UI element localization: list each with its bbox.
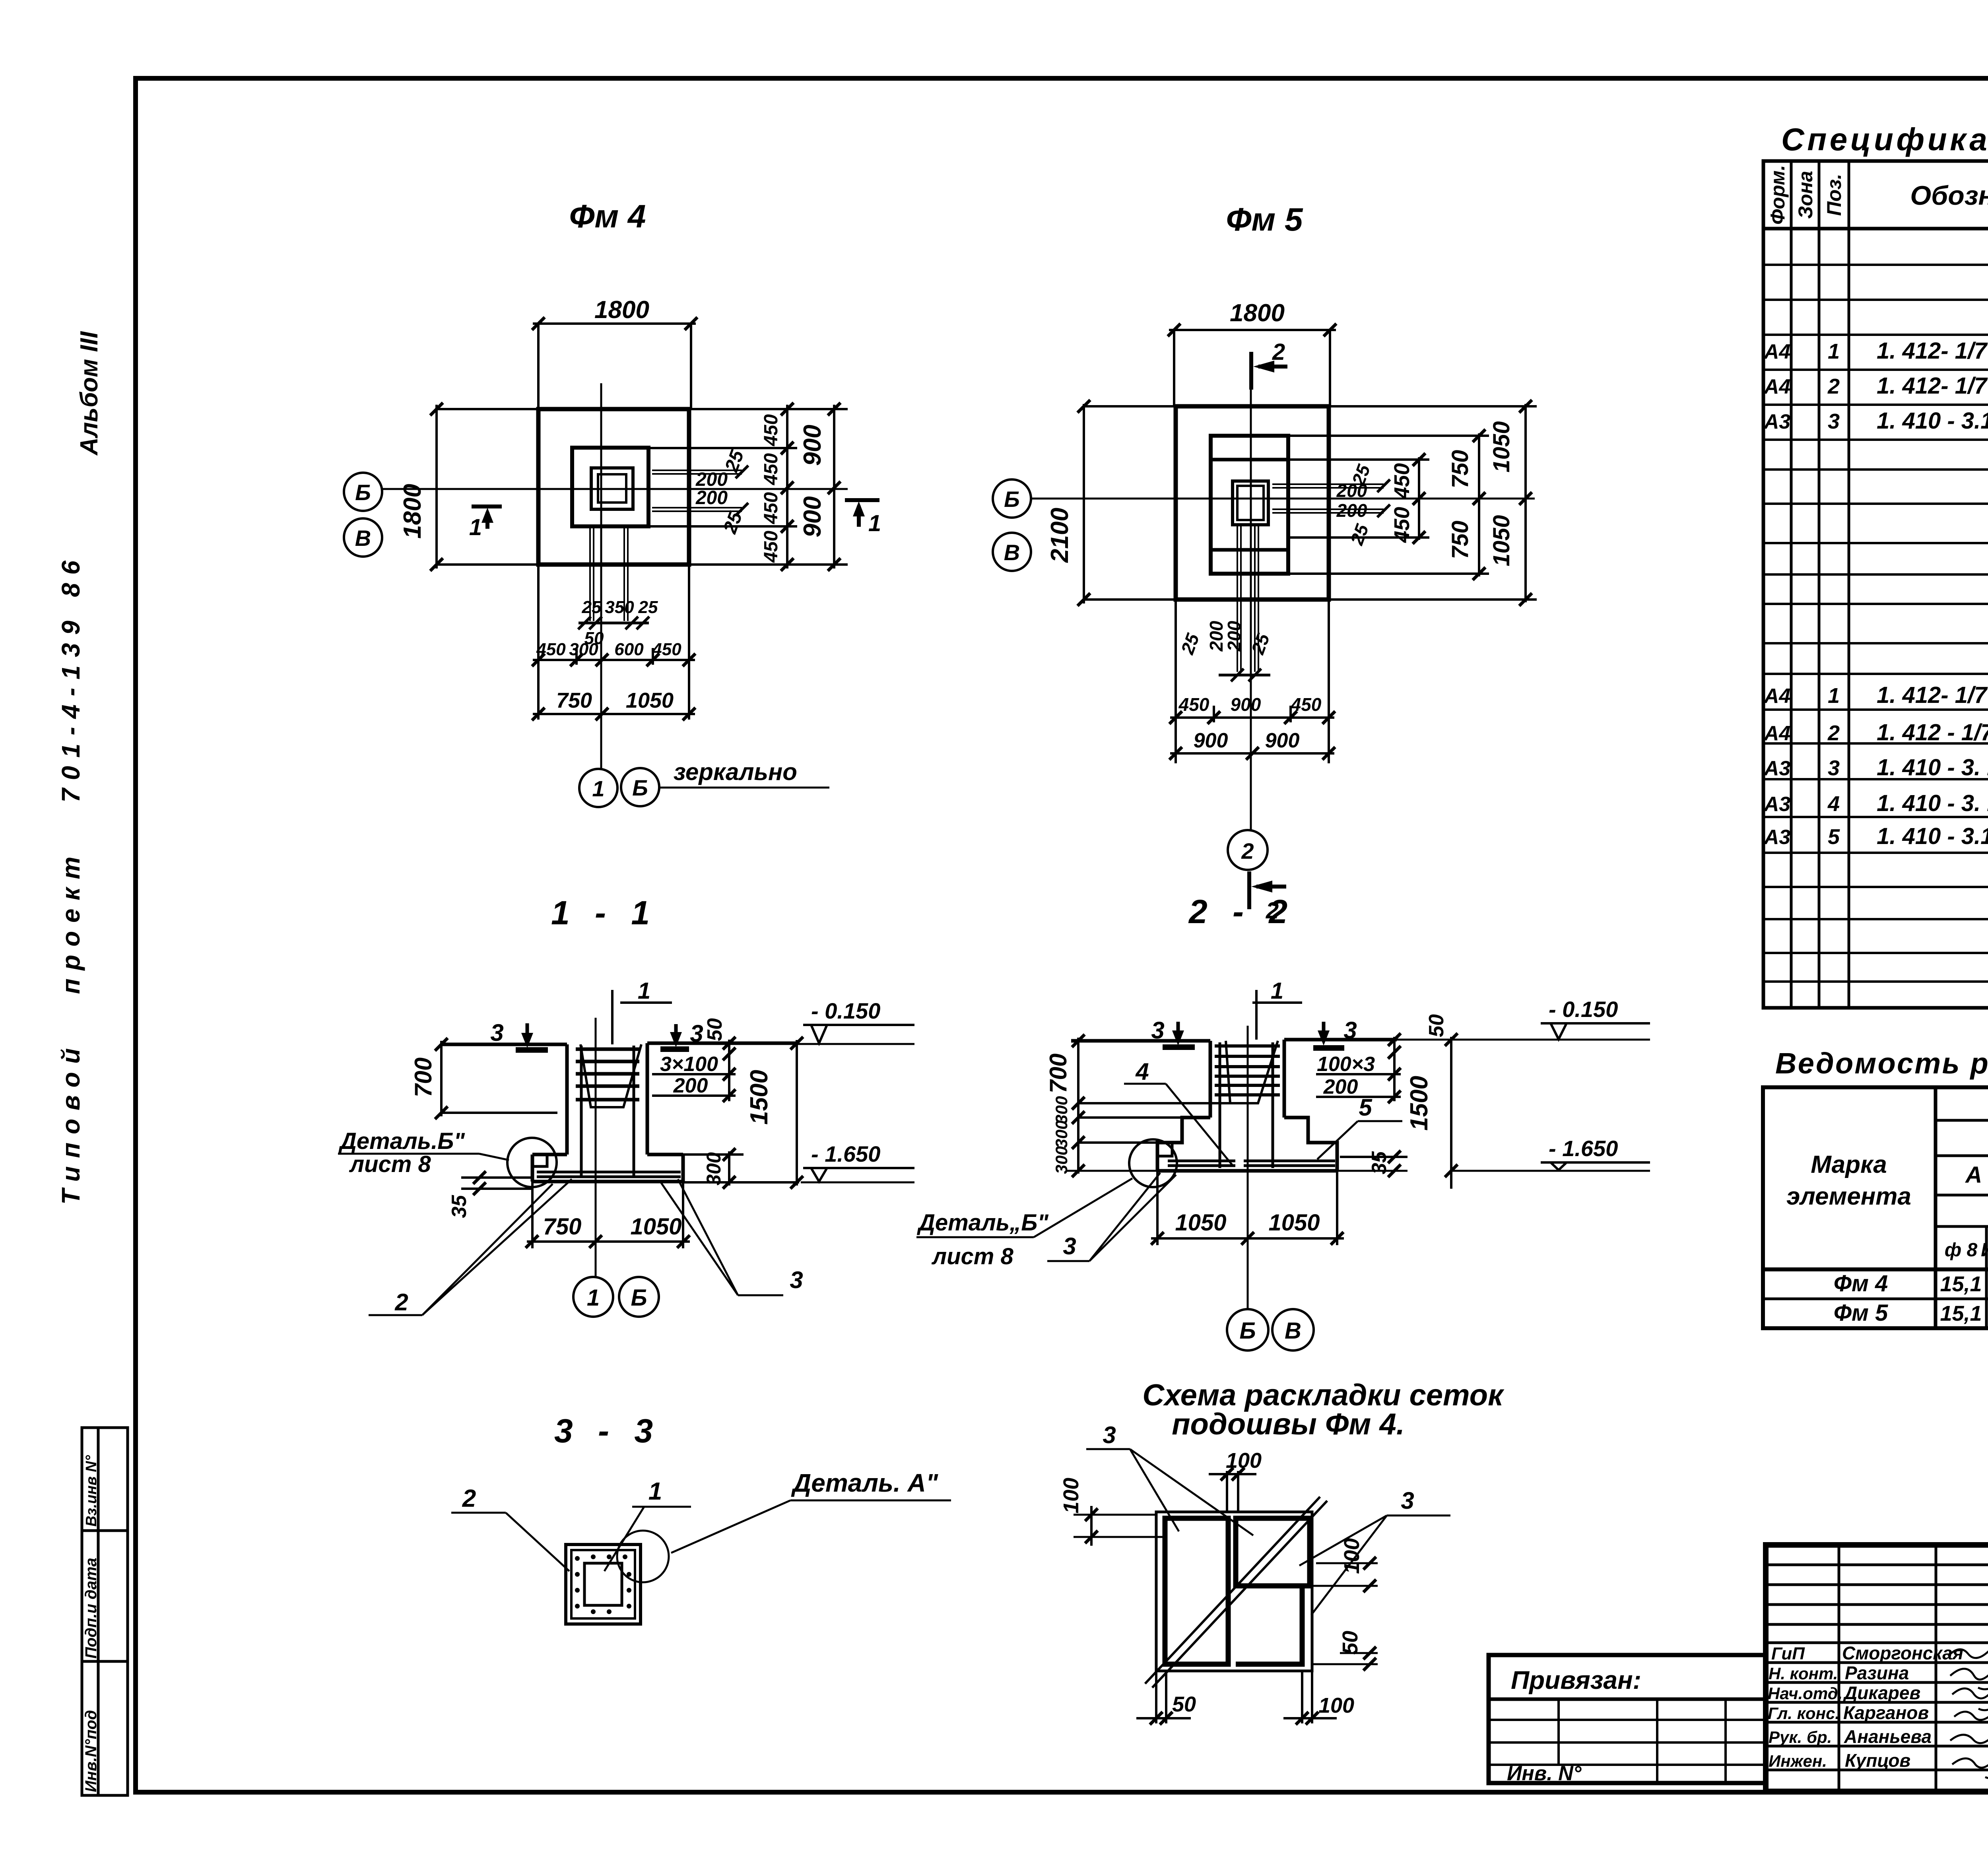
steel row header bottom [1763, 1267, 1988, 1271]
plan Фм5 step band top [1211, 458, 1288, 462]
scheme dim 50 bottom [1155, 1671, 1157, 1723]
plan Фм5 middle step [1211, 436, 1288, 574]
s22 left dim 700+300x3 [1077, 1038, 1079, 1174]
s11 bottom mesh [537, 1172, 681, 1177]
s11 circle Б [619, 1277, 659, 1317]
svg-text:элемента: элемента [1786, 1183, 1911, 1210]
svg-text:1050: 1050 [1268, 1210, 1320, 1236]
svg-text:Фм 4: Фм 4 [1834, 1271, 1888, 1296]
svg-text:450: 450 [652, 640, 681, 659]
svg-text:2 - 2: 2 - 2 [1188, 893, 1295, 930]
svg-text:1500: 1500 [745, 1070, 773, 1125]
Фм5 right dim 750 750 [1478, 433, 1480, 576]
plan Фм5 step band bottom [1211, 548, 1288, 552]
s11 detail circle [507, 1138, 557, 1187]
svg-text:700: 700 [1045, 1054, 1072, 1093]
plan Фм5 column inner [1237, 486, 1264, 520]
steel row Изделия bottom [1936, 1119, 1988, 1122]
svg-text:5: 5 [1359, 1094, 1373, 1121]
signatures squiggles [1948, 1649, 1988, 1778]
svg-text:Сморгонская: Сморгонская [1842, 1643, 1963, 1663]
s22 circle В [1272, 1309, 1314, 1351]
axis circle Б left [344, 473, 382, 511]
Фм5 axis circle В [993, 533, 1031, 571]
svg-text:200: 200 [1336, 480, 1367, 501]
svg-text:450: 450 [761, 531, 782, 563]
svg-text:35: 35 [448, 1195, 471, 1218]
svg-text:Поз.: Поз. [1823, 174, 1845, 216]
svg-text:300: 300 [1052, 1146, 1071, 1174]
axis circle В left [344, 518, 382, 557]
svg-text:3: 3 [1103, 1422, 1116, 1448]
svg-text:3: 3 [790, 1267, 803, 1293]
svg-text:100: 100 [1226, 1449, 1262, 1473]
s22 pedestal left edge [1209, 1041, 1212, 1118]
Фм5 rebar pair right top [1272, 483, 1384, 485]
scheme mesh left [1165, 1518, 1228, 1664]
svg-text:900: 900 [1231, 694, 1261, 715]
svg-text:4: 4 [1135, 1058, 1149, 1085]
dim 1800 left: line [435, 405, 438, 569]
svg-text:1: 1 [592, 776, 604, 801]
svg-text:25: 25 [638, 598, 658, 617]
svg-text:Деталь. А": Деталь. А" [791, 1469, 938, 1497]
steel row data divider [1763, 1298, 1988, 1300]
svg-text:В: В [1004, 540, 1020, 565]
svg-text:Б: Б [1239, 1318, 1256, 1344]
svg-text:1. 410 - 3.1 - 02: 1. 410 - 3.1 - 02 [1877, 823, 1988, 849]
svg-text:Б: Б [631, 1285, 647, 1311]
plan Фм4 footing outline [538, 409, 689, 565]
plan Фм4 column inner [598, 474, 626, 503]
Фм5 dim 1800 top line [1169, 329, 1336, 331]
d33 middle square [571, 1550, 635, 1618]
svg-text:Гл. конс.: Гл. конс. [1768, 1704, 1840, 1723]
svg-text:3: 3 [1343, 1017, 1357, 1044]
svg-text:ф 8: ф 8 [1945, 1240, 1978, 1261]
s22 horizontal bars [1215, 1046, 1280, 1095]
svg-text:Привязан:: Привязан: [1511, 1666, 1641, 1694]
svg-text:750: 750 [1447, 521, 1473, 559]
svg-text:100: 100 [1059, 1478, 1083, 1513]
d33 outer square [566, 1545, 641, 1624]
svg-text:Б: Б [632, 775, 648, 800]
svg-text:200: 200 [673, 1074, 708, 1097]
small rebar dim ticks right [736, 466, 748, 516]
plan Фм4 middle step [572, 448, 648, 526]
margin stamp divider row 1 [82, 1529, 128, 1532]
s11 bottom dim 750 1050 [527, 1240, 690, 1243]
svg-text:- 0.150: - 0.150 [811, 998, 880, 1023]
svg-text:300: 300 [703, 1152, 725, 1186]
svg-text:450: 450 [761, 492, 782, 524]
s22 left step profile [1157, 1118, 1210, 1171]
svg-text:Дикарев: Дикарев [1842, 1682, 1920, 1703]
s22 dim 50 100x3 200 right [1393, 1037, 1396, 1101]
svg-text:5: 5 [1828, 825, 1840, 849]
s11 dim 700 [440, 1041, 443, 1116]
svg-text:3×100: 3×100 [660, 1053, 718, 1076]
s22 slab bottom [1157, 1169, 1337, 1173]
title block signature rows [1766, 1661, 1988, 1664]
d33 inner square [584, 1563, 622, 1605]
svg-text:700: 700 [410, 1058, 437, 1097]
s22 top surface right [1284, 1038, 1397, 1042]
svg-text:750: 750 [543, 1214, 582, 1240]
svg-text:50: 50 [703, 1018, 726, 1041]
steel subcol lines [1985, 1226, 1988, 1328]
scheme dim 100 left [1074, 1514, 1156, 1516]
scheme outer square [1156, 1512, 1312, 1671]
d33 callout circle [617, 1531, 669, 1582]
s22 axis [1247, 1026, 1249, 1309]
svg-text:Ведомость расхода стали на: Ведомость расхода стали на элемент, кг [1775, 1047, 1988, 1080]
svg-text:А3: А3 [1763, 793, 1791, 816]
scheme dim 100 right [1316, 1562, 1378, 1564]
right extension lines [689, 408, 848, 410]
svg-text:Б: Б [1004, 487, 1020, 512]
s11 step top left [532, 1153, 567, 1156]
plan Фм4 horizontal axis Б [382, 488, 848, 490]
svg-text:4: 4 [1827, 792, 1840, 816]
привязан rows [1489, 1719, 1766, 1721]
Фм5 small rebar ticks right [1377, 479, 1390, 517]
right dim line 900x2 [833, 405, 835, 569]
s11 dim 50 and 3x100 200 right [728, 1040, 730, 1101]
scheme dim 100 bottom [1301, 1671, 1303, 1723]
bottom axis circle 1 [579, 769, 617, 807]
svg-text:900: 900 [799, 425, 826, 466]
s11 mesh callout 1 [612, 990, 672, 1044]
s11 step top right [647, 1153, 683, 1156]
Фм5 bottom dim 450 900 450 [1170, 716, 1334, 719]
svg-text:25: 25 [582, 598, 602, 617]
svg-text:1. 412- 1/77- В. 3 - 020: 1. 412- 1/77- В. 3 - 020 [1877, 338, 1988, 364]
svg-text:1. 410 - 3. 1 - 01: 1. 410 - 3. 1 - 01 [1877, 755, 1988, 780]
svg-text:2: 2 [1827, 374, 1840, 398]
svg-text:1: 1 [1271, 978, 1283, 1004]
s22 pedestal right edge [1283, 1040, 1286, 1118]
svg-text:Карганов: Карганов [1843, 1702, 1929, 1723]
svg-text:А4: А4 [1763, 375, 1791, 398]
scheme diagonal break line [1145, 1497, 1320, 1684]
Фм5 right dim 450 450 [1418, 457, 1420, 540]
svg-text:450: 450 [1390, 463, 1414, 499]
section mark 1 right [845, 500, 879, 527]
spec table grid [1763, 161, 1988, 1008]
Фм5 small dim line bottom [1219, 674, 1270, 677]
svg-text:200: 200 [1224, 621, 1244, 652]
Фм5 rebar pair right bottom [1272, 508, 1384, 510]
svg-text:450: 450 [761, 414, 782, 446]
svg-text:3: 3 [690, 1020, 703, 1047]
svg-text:Б: Б [355, 480, 371, 505]
svg-text:300: 300 [569, 640, 598, 659]
steel col Марка [1934, 1087, 1938, 1328]
dim 1800 top: line [533, 322, 696, 325]
svg-text:В: В [355, 526, 371, 551]
svg-text:3: 3 [1828, 756, 1840, 780]
s22 notch [1157, 1143, 1172, 1156]
svg-text:А - I: А - I [1965, 1162, 1988, 1188]
Фм5 right extension lines [1329, 405, 1537, 407]
svg-text:15,1: 15,1 [1940, 1272, 1982, 1296]
svg-text:А3: А3 [1763, 757, 1791, 780]
svg-text:Фм 5: Фм 5 [1226, 202, 1303, 238]
svg-text:Инжен.: Инжен. [1769, 1752, 1827, 1770]
svg-text:1: 1 [638, 978, 650, 1004]
svg-text:450: 450 [761, 453, 782, 485]
svg-text:3: 3 [1063, 1233, 1076, 1259]
margin stamp block [82, 1428, 128, 1795]
rebar pair right top [652, 470, 742, 471]
s11 vertical bars [580, 1046, 583, 1176]
steel row classes bottom [1936, 1194, 1988, 1197]
svg-text:300: 300 [1052, 1120, 1071, 1148]
svg-text:3 - 3: 3 - 3 [554, 1412, 661, 1449]
svg-text:Деталь„Б": Деталь„Б" [916, 1210, 1049, 1236]
svg-text:ГиП: ГиП [1771, 1644, 1805, 1663]
plan Фм4 vertical axis [600, 383, 602, 769]
svg-text:- 0.150: - 0.150 [1549, 997, 1618, 1022]
s22 dim 1500 [1450, 1037, 1452, 1189]
svg-text:1800: 1800 [1230, 299, 1285, 327]
s11 dim 1500 [796, 1040, 798, 1186]
s11 pedestal right edge [646, 1043, 649, 1155]
svg-text:2: 2 [1827, 721, 1840, 745]
svg-text:Фм 4: Фм 4 [569, 198, 646, 235]
s22 top surface left [1071, 1039, 1210, 1043]
svg-text:1050: 1050 [630, 1214, 681, 1240]
svg-text:Форм.: Форм. [1767, 165, 1789, 225]
svg-text:1800: 1800 [399, 484, 426, 539]
plan Фм4 column outer [591, 468, 633, 509]
title block col 2 [1935, 1545, 1938, 1791]
s22 dim 35 [1340, 1156, 1408, 1158]
svg-text:450: 450 [1291, 694, 1322, 715]
svg-text:1: 1 [648, 1478, 662, 1505]
Фм5 section mark 2 bottom [1249, 871, 1286, 909]
svg-text:3: 3 [1828, 409, 1840, 433]
svg-text:2: 2 [394, 1289, 408, 1316]
title block thin rows [1766, 1564, 1988, 1566]
s22 recess trapezoid [1226, 1041, 1278, 1103]
Фм5 right dim 1050 1050 [1524, 404, 1527, 602]
svg-text:1. 410 - 3. 1 - 01: 1. 410 - 3. 1 - 01 [1877, 790, 1988, 816]
svg-text:1: 1 [587, 1285, 600, 1311]
svg-text:- 1.650: - 1.650 [1549, 1136, 1618, 1161]
steel row Арматура bottom [1936, 1155, 1988, 1157]
svg-text:2: 2 [1241, 838, 1254, 863]
svg-text:лист 8: лист 8 [349, 1151, 431, 1177]
s11 dim 300 [728, 1151, 730, 1186]
svg-text:лист 8: лист 8 [931, 1244, 1013, 1269]
svg-text:1050: 1050 [1175, 1210, 1226, 1236]
bottom axis circle Б [621, 768, 659, 806]
svg-text:Деталь.Б": Деталь.Б" [338, 1128, 465, 1154]
Фм5 bottom axis circle 2 [1228, 830, 1268, 870]
svg-text:А4: А4 [1763, 685, 1791, 708]
svg-text:Инв. N°: Инв. N° [1507, 1762, 1582, 1785]
svg-text:1 - 1: 1 - 1 [551, 894, 658, 931]
section mark 1 left [472, 506, 502, 529]
svg-text:750: 750 [1447, 450, 1473, 489]
rebar pair right bottom [652, 507, 742, 508]
svg-text:2: 2 [462, 1485, 476, 1512]
svg-text:450: 450 [1178, 694, 1209, 715]
svg-text:450: 450 [1390, 507, 1414, 543]
svg-text:Итого: Итого [1981, 1240, 1988, 1261]
svg-text:1. 412- 1/77- В. 3 - 020: 1. 412- 1/77- В. 3 - 020 [1877, 682, 1988, 708]
svg-text:Альбом III: Альбом III [76, 331, 103, 456]
plan Фм5 column outer [1233, 481, 1268, 525]
svg-text:100×3: 100×3 [1317, 1053, 1375, 1076]
svg-text:Купцов: Купцов [1845, 1750, 1910, 1771]
svg-text:100: 100 [1318, 1694, 1354, 1717]
rebar pair down right [623, 526, 625, 621]
Фм5 axis circle Б [993, 479, 1031, 518]
margin stamp divider vertical [97, 1428, 100, 1795]
svg-text:1: 1 [1828, 684, 1840, 708]
svg-text:50: 50 [1172, 1692, 1196, 1716]
d33 rebar dots [575, 1554, 631, 1614]
Фм5 bottom dim 900 900 [1170, 752, 1334, 755]
svg-text:50: 50 [1425, 1014, 1448, 1037]
s11 dim 35 [461, 1176, 533, 1179]
svg-text:Ананьева: Ананьева [1844, 1726, 1932, 1747]
s22 right step profile [1284, 1118, 1337, 1171]
svg-text:900: 900 [1265, 729, 1300, 752]
зеркально underline [660, 787, 829, 789]
scheme dim 100 top [1226, 1471, 1228, 1512]
bottom dim line 750 1050 [533, 713, 695, 715]
svg-text:200: 200 [1336, 500, 1367, 521]
right dim line 450x4 [786, 405, 788, 569]
svg-text:А3: А3 [1763, 826, 1791, 849]
svg-text:1: 1 [469, 514, 482, 540]
svg-text:35: 35 [1368, 1151, 1391, 1174]
Фм5 rebar pair down 1 [1237, 525, 1238, 672]
svg-text:Инв.N°под: Инв.N°под [82, 1710, 100, 1792]
svg-text:200: 200 [695, 487, 728, 508]
s11 pedestal left edge [565, 1044, 569, 1155]
s11 notch [532, 1155, 547, 1166]
привязан cols [1557, 1699, 1560, 1765]
Фм5 dim 2100 left line [1083, 404, 1085, 603]
steel table outer [1763, 1087, 1988, 1328]
svg-text:2: 2 [1272, 339, 1285, 365]
s11 axis [595, 1018, 597, 1277]
s22 circle Б [1227, 1309, 1268, 1351]
svg-text:3: 3 [490, 1019, 503, 1046]
s11 top surface left [441, 1043, 567, 1046]
scheme mesh top right [1236, 1518, 1310, 1586]
svg-text:1050: 1050 [1489, 421, 1514, 472]
svg-text:450: 450 [536, 640, 566, 659]
margin stamp divider row 2 [82, 1660, 128, 1663]
svg-text:2100: 2100 [1046, 508, 1074, 563]
svg-text:А3: А3 [1763, 410, 1791, 433]
svg-text:900: 900 [799, 496, 826, 537]
svg-text:подошвы Фм 4.: подошвы Фм 4. [1172, 1407, 1405, 1441]
s22 bottom dim 1050 1050 [1151, 1237, 1344, 1240]
svg-text:Обозначение: Обозначение [1910, 180, 1988, 211]
svg-text:50: 50 [1338, 1631, 1362, 1655]
svg-text:15,1: 15,1 [1940, 1302, 1982, 1325]
svg-text:1. 412 - 1/77- В. 3 - 100: 1. 412 - 1/77- В. 3 - 100 [1877, 720, 1988, 745]
svg-text:1. 412- 1/77- В. 3 - 100: 1. 412- 1/77- В. 3 - 100 [1877, 373, 1988, 399]
svg-text:100: 100 [1340, 1538, 1364, 1574]
svg-text:А4: А4 [1763, 340, 1791, 363]
svg-text:Зона: Зона [1794, 171, 1817, 219]
bottom dim line 450 300 600 450 [533, 659, 695, 661]
svg-text:1800: 1800 [594, 296, 649, 324]
svg-text:Рук. бр.: Рук. бр. [1769, 1728, 1832, 1746]
s22 detail circle [1129, 1139, 1177, 1187]
title block outer [1766, 1545, 1988, 1791]
svg-text:900: 900 [1194, 729, 1228, 752]
svg-text:Нач.отд.: Нач.отд. [1768, 1684, 1842, 1703]
svg-text:350: 350 [605, 598, 634, 617]
s11 circle 1 [573, 1277, 613, 1317]
svg-text:Спецификация элементов ф: Спецификация элементов фундаментов [1781, 122, 1988, 157]
svg-text:зеркально: зеркально [674, 759, 797, 785]
rebar pair down left [589, 526, 591, 621]
scheme mesh bottom right [1236, 1586, 1302, 1664]
svg-text:3: 3 [1151, 1017, 1164, 1044]
svg-text:1050: 1050 [1489, 515, 1514, 566]
s11 slab right edge [681, 1155, 685, 1182]
s11 slab bottom [532, 1180, 683, 1184]
plan Фм5 horizontal axis [1031, 498, 1535, 500]
svg-text:А4: А4 [1763, 722, 1791, 745]
svg-text:200: 200 [1323, 1075, 1358, 1098]
svg-text:1: 1 [868, 510, 881, 536]
s22 mesh callout 1 [1252, 990, 1302, 1040]
plan Фм5 footing outline [1176, 406, 1329, 600]
s22 vertical bars [1219, 1042, 1221, 1168]
scheme dim 50 right [1340, 1652, 1378, 1654]
svg-text:1500: 1500 [1406, 1076, 1433, 1131]
svg-text:750: 750 [556, 689, 592, 712]
small dim line 25 350 25 [579, 622, 649, 625]
s22 bottom mesh [1168, 1161, 1335, 1166]
svg-text:1050: 1050 [626, 689, 674, 712]
svg-text:600: 600 [614, 640, 644, 659]
svg-text:Н. конт.: Н. конт. [1769, 1664, 1838, 1683]
svg-text:- 1.650: - 1.650 [811, 1141, 880, 1166]
title block col 1 [1838, 1545, 1840, 1791]
svg-text:Подп.и дата: Подп.и дата [82, 1558, 100, 1659]
svg-text:Марка: Марка [1811, 1151, 1887, 1178]
svg-text:1: 1 [1828, 340, 1840, 363]
steel row ГОСТ bottom [1936, 1225, 1988, 1228]
привязан row 1 [1489, 1698, 1766, 1701]
svg-text:3: 3 [1401, 1487, 1414, 1514]
привязан block outer [1489, 1655, 1766, 1783]
s11 top surface right [647, 1042, 799, 1045]
s11 horizontal bars [576, 1049, 639, 1100]
svg-text:В: В [1285, 1318, 1301, 1344]
Фм5 section mark 2 top [1251, 352, 1287, 390]
svg-text:300: 300 [1052, 1096, 1071, 1124]
svg-text:Вз.инв N°: Вз.инв N° [83, 1455, 100, 1527]
s11 recess trapezoid [580, 1044, 641, 1107]
Фм5 rebar pair down 2 [1254, 525, 1256, 672]
svg-text:Разина: Разина [1845, 1663, 1909, 1683]
s11 slab left edge [531, 1155, 534, 1182]
svg-text:1. 410 - 3.1 - 01: 1. 410 - 3.1 - 01 [1877, 408, 1988, 434]
